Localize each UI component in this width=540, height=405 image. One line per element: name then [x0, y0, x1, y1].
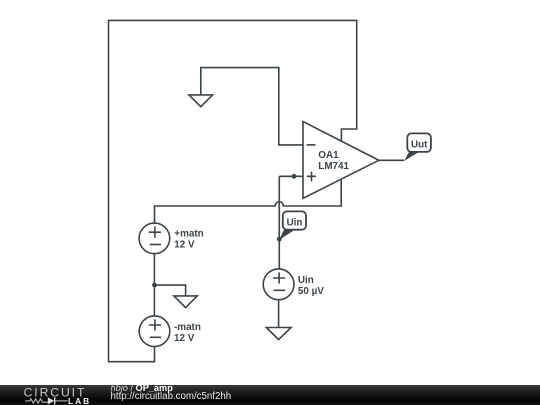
ground (bottom, Uin source)	[266, 328, 291, 340]
flag Uut pointer	[404, 152, 419, 161]
svg-text:LAB: LAB	[68, 395, 91, 405]
V2 labels	[174, 322, 201, 344]
ground (top, inverting input)	[189, 95, 213, 107]
svg-text:50 µV: 50 µV	[298, 286, 324, 297]
V2 plus symbol	[149, 319, 161, 330]
svg-text:Uin: Uin	[298, 275, 314, 286]
ground (middle, supply midpoint)	[174, 296, 197, 308]
V1 labels	[174, 228, 203, 250]
label OA1 / LM741	[318, 150, 349, 172]
flag Uut box	[407, 133, 431, 152]
V3 labels	[298, 275, 324, 297]
footer bar	[0, 385, 540, 405]
V1 minus symbol	[150, 244, 161, 246]
V3 plus symbol	[273, 272, 285, 283]
V3 minus symbol	[274, 289, 286, 291]
svg-text:-matn: -matn	[174, 322, 201, 333]
svg-text:OA1: OA1	[318, 150, 339, 161]
V2 minus symbol	[150, 336, 161, 338]
svg-text:Uin: Uin	[287, 217, 303, 228]
wire: inverting input to ground net	[201, 68, 303, 145]
svg-text:+matn: +matn	[174, 228, 203, 239]
flag Uin pointer	[279, 230, 294, 240]
wire: output	[379, 159, 404, 161]
wire: between +matn and -matn	[153, 254, 155, 316]
wire: midpoint to ground	[155, 285, 186, 296]
node: supply midpoint junction	[152, 283, 157, 288]
voltage source V3 Uin circle	[263, 269, 294, 300]
voltage source V1 +matn circle	[139, 223, 170, 254]
voltage source V2 -matn circle	[139, 316, 170, 347]
CircuitLab logo	[0, 385, 100, 405]
node: junction dot on non-inverting input	[292, 174, 297, 179]
svg-text:12 V: 12 V	[174, 333, 195, 344]
node: Uin junction dot (label attach)	[277, 237, 282, 242]
wire: non-inverting input	[279, 175, 303, 177]
wire: op-amp V- supply pin down and left to +matn top (with hop over Uin net)	[155, 179, 342, 223]
op-amp minus input symbol	[307, 144, 316, 146]
wire: Uin source to ground	[278, 300, 280, 328]
flag Uin box	[283, 211, 306, 229]
op-amp plus input symbol	[307, 172, 316, 182]
svg-text:Uut: Uut	[411, 139, 428, 150]
svg-text:LM741: LM741	[318, 161, 349, 172]
svg-text:12 V: 12 V	[174, 240, 195, 251]
wire: op-amp V+ supply pin up/left loop to -matn bottom	[109, 20, 357, 361]
V1 plus symbol	[149, 227, 161, 238]
wire: Uin vertical net from + input to Uin source	[278, 176, 280, 269]
op-amp U1 triangle	[303, 122, 379, 199]
